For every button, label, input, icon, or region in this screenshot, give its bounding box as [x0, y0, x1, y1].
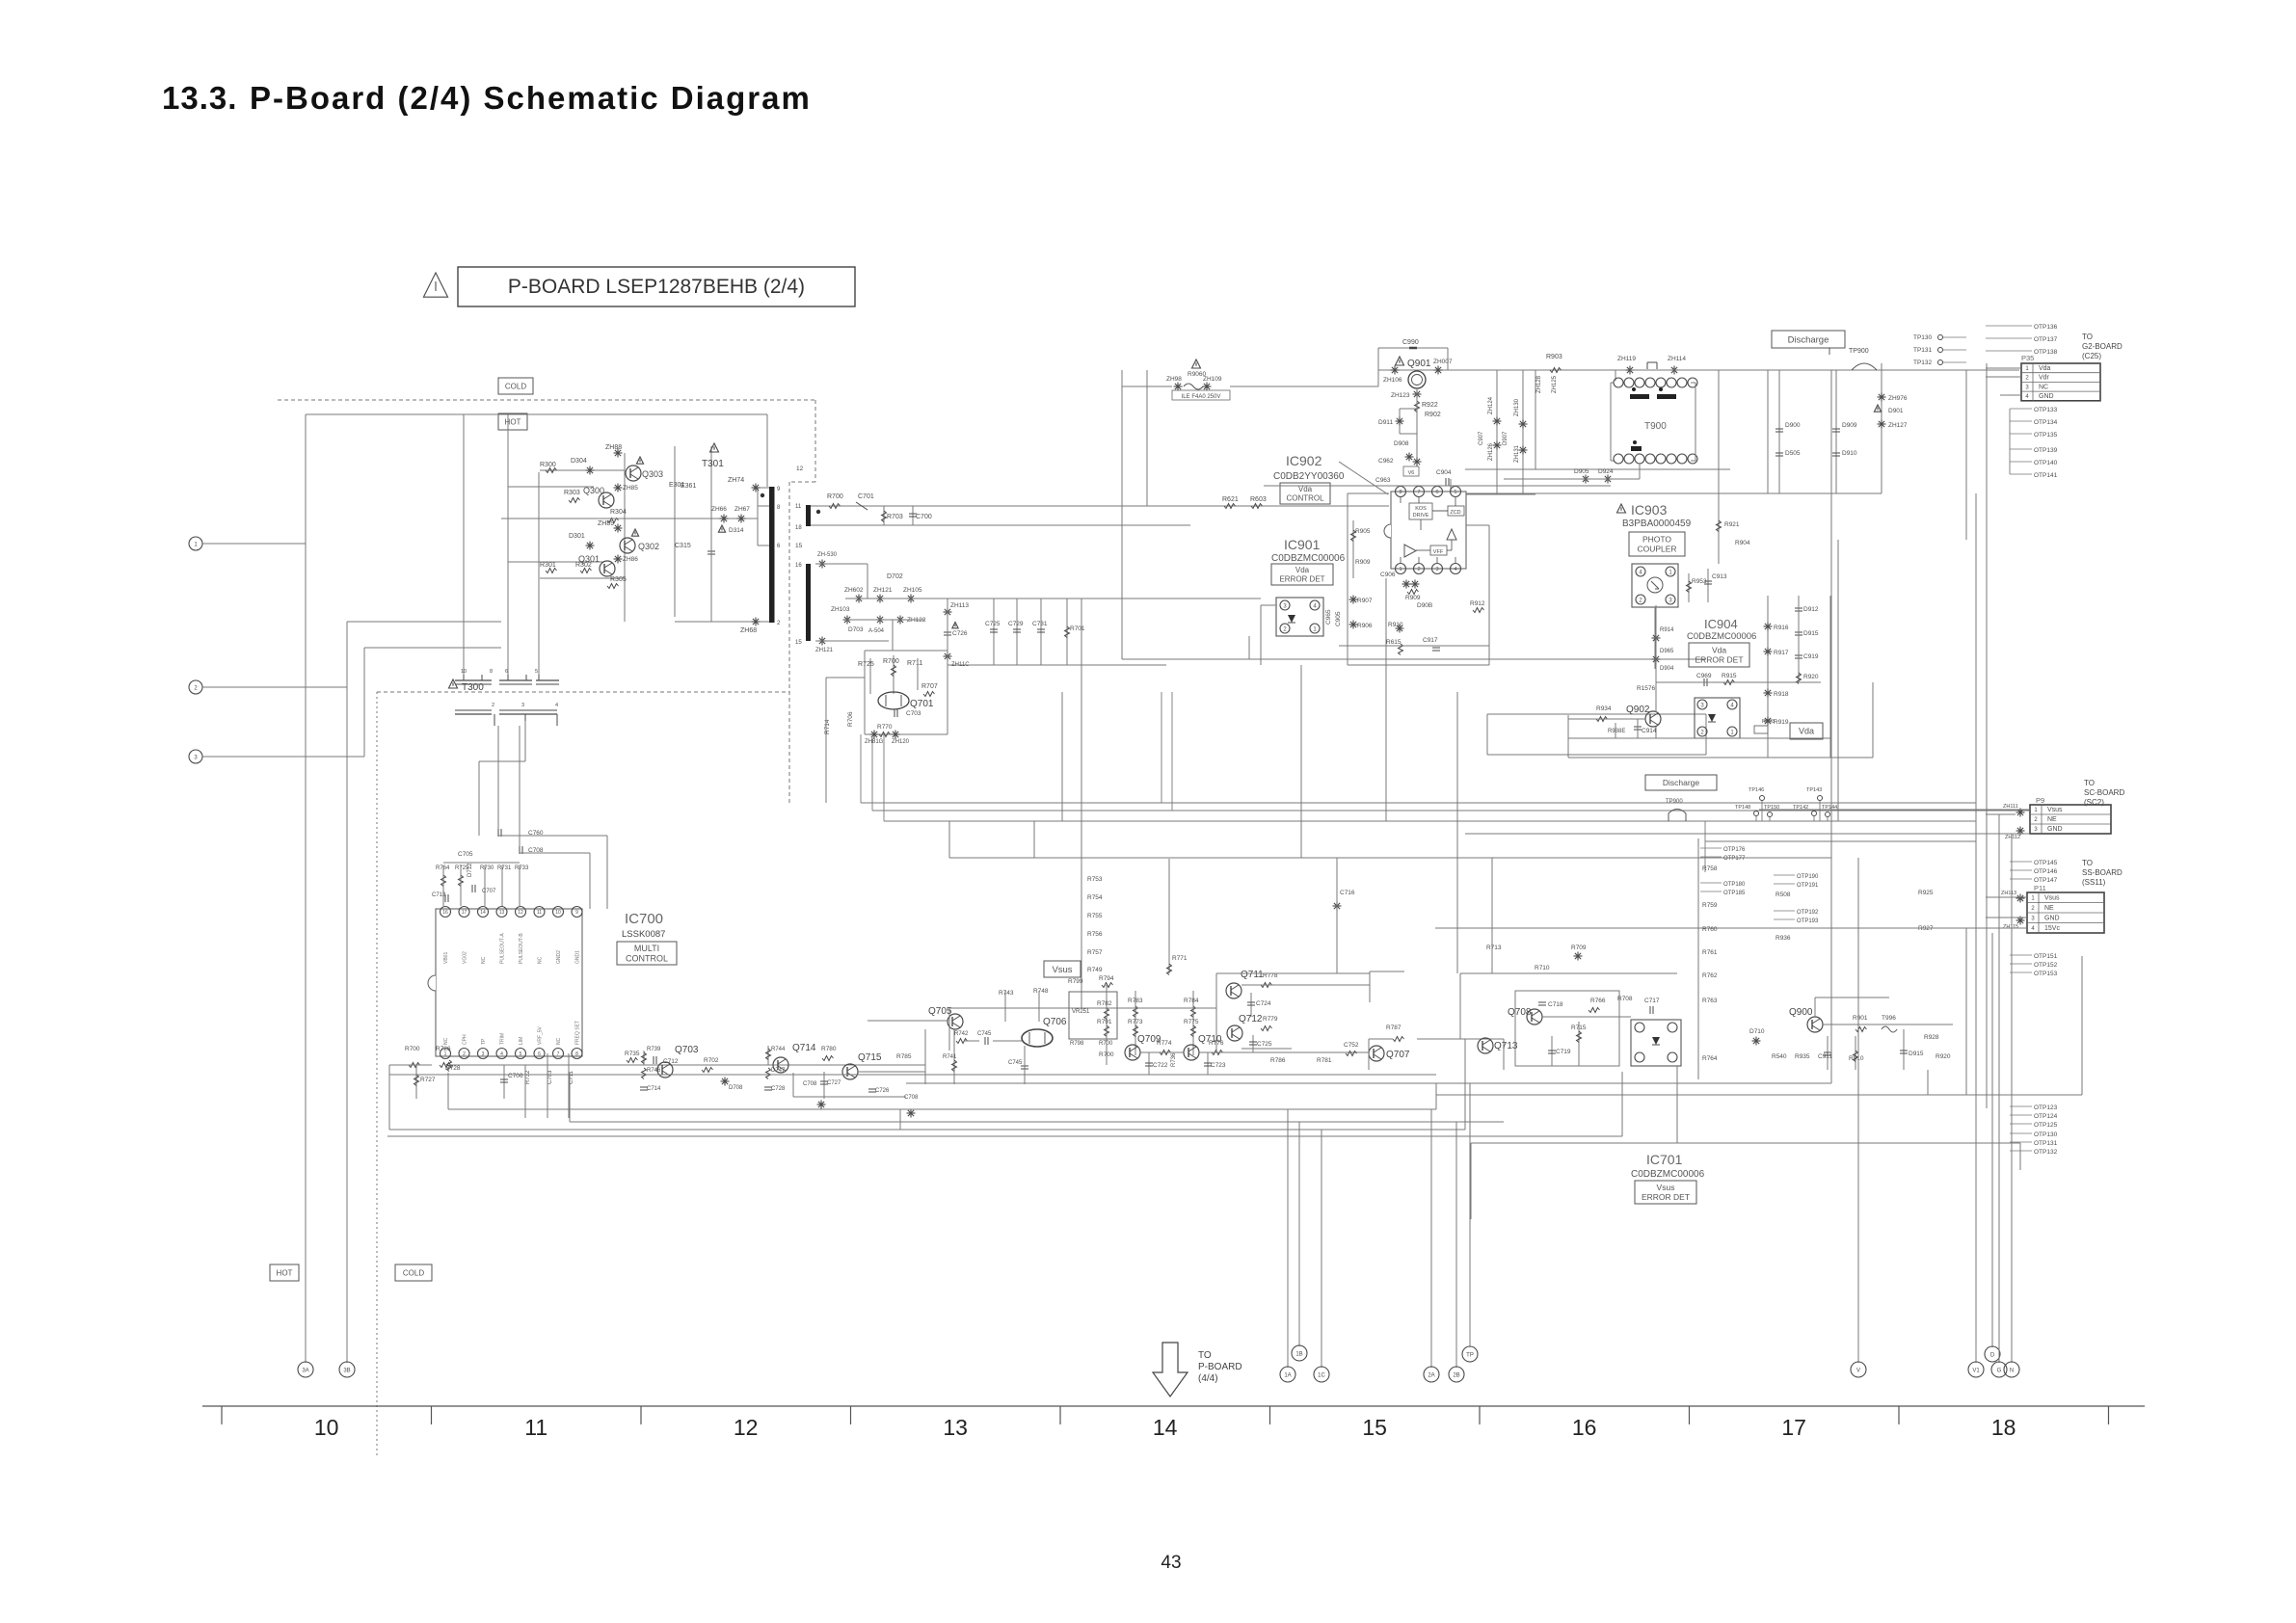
svg-text:TP900: TP900 [1666, 799, 1683, 805]
wire vertical x591 [569, 1073, 571, 1122]
svg-text:4: 4 [1313, 603, 1317, 609]
svg-text:C719: C719 [1556, 1049, 1571, 1055]
capacitor C726 [952, 623, 958, 628]
capacitor D505 [1775, 453, 1783, 456]
svg-text:R925: R925 [1918, 890, 1934, 896]
transistor Q710 [1184, 1045, 1199, 1060]
IC903 reference label [1617, 504, 1626, 513]
svg-text:R927: R927 [1918, 925, 1934, 932]
svg-text:ZH81G: ZH81G [865, 739, 884, 745]
photocoupler pins [1280, 600, 1290, 610]
svg-text:ZH121: ZH121 [815, 648, 834, 653]
svg-text:R301: R301 [540, 562, 556, 569]
svg-text:GND1: GND1 [575, 950, 581, 964]
T900 winding 1 (dotted) [1630, 394, 1649, 399]
svg-text:ZH125: ZH125 [1552, 375, 1558, 393]
jumper ZH122 [896, 616, 905, 625]
svg-text:R910: R910 [1388, 622, 1403, 628]
transistor Q707 [1369, 1046, 1384, 1061]
capacitor D910 [1832, 453, 1840, 456]
svg-text:R700: R700 [883, 658, 899, 665]
wire Q709 row rail [1140, 1051, 1184, 1053]
capacitor C725 [993, 599, 995, 665]
svg-text:C965: C965 [1325, 609, 1332, 625]
svg-text:Q714: Q714 [792, 1043, 816, 1053]
svg-text:R771: R771 [1172, 955, 1188, 962]
svg-text:5: 5 [1454, 490, 1456, 495]
svg-text:R758: R758 [1702, 865, 1718, 872]
svg-text:R916: R916 [1774, 625, 1789, 631]
jumper ZH106 [1391, 366, 1400, 375]
svg-text:4: 4 [1454, 567, 1456, 572]
svg-text:R756: R756 [1087, 931, 1103, 938]
wire vertical x1834 [1767, 596, 1769, 758]
svg-text:V6: V6 [1408, 470, 1415, 476]
svg-text:R305: R305 [610, 576, 627, 583]
svg-text:3: 3 [2031, 917, 2035, 922]
svg-text:OTP130: OTP130 [2034, 1131, 2058, 1138]
svg-text:R902: R902 [1425, 412, 1441, 418]
svg-text:11: 11 [795, 504, 802, 510]
svg-text:P-Board (2/4) Schematic Diagra: P-Board (2/4) Schematic Diagram [250, 80, 812, 116]
bottom pin 1B [1292, 1345, 1307, 1361]
wire source wire Q302 [540, 577, 625, 579]
wire drop x1371 [1321, 1130, 1322, 1368]
wire C708 link [520, 852, 590, 854]
diagonal switch line [1339, 462, 1388, 494]
bottom pin D1 [1985, 1346, 2000, 1362]
warning triangle [423, 273, 447, 297]
OTP177 wire [1700, 856, 1722, 858]
wire Q902 loop rails [1568, 737, 1830, 739]
wire bus y1179 [387, 1135, 1622, 1137]
capacitor D915b [1795, 632, 1802, 635]
OTP136 wire [1986, 325, 2032, 327]
jumper ZH126 [1493, 441, 1502, 450]
wire vertical x934 [899, 1109, 901, 1130]
ruler ticks [221, 1406, 223, 1424]
svg-text:COUPLER: COUPLER [1637, 544, 1676, 553]
svg-text:Q706: Q706 [1043, 1017, 1067, 1027]
svg-text:1: 1 [1399, 567, 1402, 572]
capacitor C729 [1016, 599, 1018, 665]
svg-text:2A: 2A [1428, 1372, 1434, 1378]
svg-text:C718: C718 [1548, 1001, 1563, 1008]
svg-text:C723: C723 [1211, 1062, 1226, 1069]
svg-text:Vda: Vda [1295, 566, 1310, 574]
svg-text:ZH113: ZH113 [950, 602, 969, 609]
wire cross rail y487 [1465, 468, 1730, 470]
fuse resistor R9060 [1192, 359, 1201, 368]
svg-text:3A: 3A [302, 1368, 308, 1373]
svg-text:15: 15 [1362, 1415, 1387, 1440]
transistor Q902 [1645, 711, 1661, 727]
svg-text:12: 12 [518, 910, 523, 916]
resistor R778 [1261, 983, 1272, 988]
svg-text:ZH127: ZH127 [1888, 422, 1908, 429]
wire vertical x985 [948, 1008, 950, 1051]
svg-text:C913: C913 [1712, 573, 1727, 580]
resistor R918 [1764, 689, 1773, 698]
svg-text:Vda: Vda [1799, 727, 1814, 736]
svg-text:E361: E361 [681, 483, 696, 490]
P35 feed wires [1986, 367, 2021, 369]
svg-text:5: 5 [535, 669, 538, 675]
svg-text:P35: P35 [2021, 354, 2034, 362]
T300 lower winding pins [494, 714, 495, 726]
svg-text:R743: R743 [999, 990, 1014, 997]
svg-text:R621: R621 [1222, 496, 1239, 503]
svg-text:TO: TO [2082, 859, 2093, 867]
P9 feed wires [1759, 809, 2030, 811]
resistor R779 [1261, 1026, 1272, 1031]
svg-text:3B: 3B [343, 1368, 350, 1373]
svg-text:R918: R918 [1774, 691, 1789, 698]
svg-text:HOT: HOT [505, 417, 521, 426]
wire C904 drop [1450, 479, 1452, 492]
svg-text:R794: R794 [1099, 975, 1114, 982]
wire T300 sec to C760 [497, 726, 499, 836]
resistor R700 on rail [829, 504, 841, 509]
svg-text:R754: R754 [1087, 894, 1103, 901]
svg-text:OTP147: OTP147 [2034, 877, 2058, 884]
svg-text:D702: D702 [887, 573, 903, 580]
svg-text:C963: C963 [1375, 477, 1391, 484]
wire Q901 stem [1416, 388, 1418, 463]
wire vertical x1512 [1456, 692, 1458, 973]
wire vertical right col 0 [1718, 370, 1720, 564]
T301 secondary core bar upper [806, 505, 811, 526]
wire OTP176 feeder vertical [1704, 821, 1706, 872]
svg-text:R753: R753 [1087, 876, 1103, 883]
svg-text:D911: D911 [1378, 419, 1393, 426]
svg-text:R938E: R938E [1608, 729, 1625, 734]
svg-text:ZH121: ZH121 [873, 587, 893, 594]
capacitor D909 [1832, 429, 1840, 432]
svg-text:R773: R773 [1128, 1019, 1143, 1025]
svg-text:R799: R799 [1068, 978, 1083, 985]
resistor R905 [1352, 520, 1354, 549]
wire diode cluster rail [845, 598, 1261, 599]
svg-text:3: 3 [1435, 567, 1438, 572]
svg-text:1A: 1A [1284, 1372, 1291, 1378]
svg-text:R766: R766 [1590, 998, 1606, 1004]
svg-text:C914: C914 [1642, 728, 1657, 734]
svg-text:TO: TO [2082, 333, 2093, 341]
svg-text:D90B: D90B [1417, 602, 1432, 609]
svg-text:R711: R711 [907, 660, 922, 667]
svg-text:Vdr: Vdr [2039, 375, 2050, 382]
svg-text:2: 2 [777, 621, 781, 626]
VFF box [1430, 545, 1447, 555]
OTP190 wire [1774, 874, 1795, 876]
Vsus function box [1044, 961, 1081, 977]
wire drop x1928 [1857, 858, 1859, 1363]
svg-text:R914: R914 [1660, 627, 1674, 633]
COLD label box (bottom) [395, 1264, 432, 1281]
svg-text:R733: R733 [515, 865, 529, 871]
wire corner x893 [860, 734, 862, 803]
jumper ZH124 [1493, 417, 1502, 426]
svg-text:R779: R779 [1263, 1016, 1278, 1023]
P35 connector table [2021, 363, 2100, 401]
T300 centre tap wire [524, 721, 526, 761]
capacitor C727 [823, 1072, 825, 1099]
svg-text:G2-BOARD: G2-BOARD [2082, 342, 2122, 351]
svg-text:OTP125: OTP125 [2034, 1122, 2058, 1129]
wire col C703 [547, 1053, 548, 1118]
wire bus y1151 [448, 1108, 1436, 1110]
svg-text:R727: R727 [420, 1077, 436, 1083]
capacitor D900 [1775, 429, 1783, 432]
IC700 top pins [441, 907, 451, 918]
svg-text:OTP133: OTP133 [2034, 407, 2058, 413]
svg-text:Vda: Vda [2039, 365, 2051, 372]
wire photocoupler frame [1261, 604, 1276, 606]
svg-text:R934: R934 [1596, 705, 1612, 712]
svg-text:TP131: TP131 [1913, 347, 1933, 354]
wire rail y708 [1656, 681, 1821, 683]
svg-text:Q715: Q715 [858, 1052, 882, 1063]
svg-text:R764: R764 [1702, 1055, 1718, 1062]
wire pin1 to bus [202, 543, 306, 545]
svg-text:ZH120: ZH120 [892, 739, 910, 745]
svg-text:R798: R798 [1070, 1041, 1084, 1047]
svg-text:P11: P11 [2034, 884, 2046, 892]
svg-text:R903: R903 [1546, 354, 1562, 360]
svg-text:NC: NC [481, 956, 487, 964]
wire cluster drop [892, 620, 894, 651]
svg-text:C745: C745 [977, 1031, 992, 1037]
svg-text:12: 12 [796, 466, 804, 472]
svg-text:1: 1 [2025, 366, 2029, 372]
svg-text:CONTROL: CONTROL [1286, 494, 1324, 503]
svg-text:4: 4 [1639, 570, 1642, 575]
wire C760 link [498, 835, 607, 837]
svg-text:R936: R936 [1775, 935, 1791, 942]
wire vertical ZH column 1 [1496, 370, 1498, 494]
OTP191 wire [1774, 883, 1795, 885]
svg-text:OTP176: OTP176 [1723, 847, 1746, 853]
svg-text:R762: R762 [1702, 972, 1718, 979]
svg-text:D712: D712 [467, 863, 473, 877]
svg-text:17: 17 [462, 910, 467, 916]
svg-text:R615: R615 [1386, 639, 1402, 646]
jumper ZH131 [1519, 446, 1528, 455]
svg-text:C707: C707 [482, 889, 496, 894]
transistor Q701 (dual) [878, 692, 909, 709]
svg-text:R917: R917 [1774, 650, 1789, 656]
svg-text:R744: R744 [771, 1047, 786, 1052]
svg-text:2: 2 [2034, 817, 2038, 823]
wire vertical right col 1b [1778, 370, 1780, 493]
svg-text:D924: D924 [1598, 468, 1614, 475]
jumper ZH109 [1203, 383, 1212, 391]
wire drain wire Q303 [540, 469, 625, 471]
svg-text:D907: D907 [1503, 431, 1508, 445]
svg-text:D909: D909 [1842, 422, 1857, 429]
capacitor C706 [503, 1065, 505, 1099]
svg-text:R303: R303 [564, 490, 580, 496]
transistor Q705 [948, 1014, 963, 1029]
svg-text:2B: 2B [1453, 1372, 1459, 1378]
svg-text:C0DB2YY00360: C0DB2YY00360 [1273, 471, 1345, 482]
svg-text:TO: TO [1198, 1350, 1212, 1361]
wire primary block vertical 1 [463, 414, 465, 675]
T900 winding 2 (dotted) [1657, 394, 1676, 399]
wire rail y497 [1504, 478, 1640, 480]
svg-text:R735: R735 [625, 1051, 640, 1057]
svg-text:16: 16 [442, 910, 448, 916]
svg-text:R770: R770 [877, 724, 893, 731]
svg-text:2: 2 [1283, 626, 1287, 632]
wire primary block vertical 3 [538, 472, 540, 675]
svg-text:R749: R749 [1087, 967, 1103, 973]
svg-text:IC904: IC904 [1704, 617, 1738, 631]
svg-text:R742: R742 [954, 1031, 969, 1037]
diode pair below pin1 [1402, 580, 1411, 589]
svg-text:13.3.: 13.3. [162, 80, 237, 116]
svg-text:Q703: Q703 [675, 1045, 699, 1055]
svg-text:17: 17 [1781, 1415, 1806, 1440]
svg-text:1B: 1B [1295, 1351, 1302, 1357]
capacitor C720 [764, 1087, 772, 1090]
wire C726 column [947, 599, 948, 665]
svg-text:COLD: COLD [505, 382, 526, 390]
IC902 pin 2 [1414, 564, 1425, 574]
transistor Q301 [600, 561, 615, 576]
capacitor C724 [1250, 993, 1252, 1017]
svg-text:R508: R508 [1775, 891, 1791, 898]
pin 1 (left input) [189, 537, 202, 550]
svg-text:R784: R784 [1184, 998, 1199, 1004]
svg-text:43: 43 [1161, 1553, 1181, 1573]
svg-text:Q707: Q707 [1386, 1050, 1410, 1060]
resistor R710 bus [1460, 972, 1677, 974]
svg-text:C700: C700 [916, 514, 932, 520]
svg-text:DRIVE: DRIVE [1413, 513, 1429, 519]
wire OTP feeder vertical [2009, 409, 2011, 474]
resistor R907 [1349, 596, 1358, 604]
svg-text:8: 8 [490, 669, 493, 675]
capacitor C990 loop [1378, 347, 1448, 349]
resistor R776 [1212, 1051, 1223, 1055]
resistor R739 [643, 1051, 645, 1065]
wire vertical ZH column 2 [1522, 370, 1524, 494]
wire drop x1511 [1455, 1122, 1457, 1368]
svg-text:R906: R906 [1357, 623, 1373, 629]
IC903 pins [1636, 567, 1645, 576]
svg-text:Q713: Q713 [1494, 1041, 1518, 1051]
bottom pin D2 [1991, 1362, 2007, 1377]
transformer T301 warning [710, 443, 719, 452]
jumper ZH130 [1519, 420, 1528, 429]
wire rail y841 [872, 810, 2030, 811]
resistor R912 [1473, 608, 1484, 613]
svg-text:R928: R928 [1924, 1034, 1939, 1041]
wire vertical x2040 drop [1965, 928, 1967, 1095]
capacitor C919 [1795, 655, 1802, 658]
OTP151 wire [2010, 954, 2032, 956]
bottom pin 2B [1449, 1367, 1464, 1382]
svg-text:8: 8 [1399, 490, 1402, 495]
svg-text:OTP138: OTP138 [2034, 349, 2058, 356]
svg-text:2: 2 [1417, 567, 1420, 572]
svg-text:2: 2 [2031, 906, 2035, 912]
wire Q701 box [865, 650, 948, 652]
svg-text:ZH602: ZH602 [844, 587, 864, 594]
IC904 pc LED [1708, 714, 1716, 722]
resistor R903 [1550, 368, 1562, 373]
hot/cold dashed boundary right vertical [814, 400, 816, 482]
transistor Q713 [1478, 1038, 1493, 1053]
svg-text:R912: R912 [1470, 600, 1485, 607]
OTP139 wire [2010, 448, 2032, 450]
wire Q70x upper rail [924, 1029, 926, 1084]
resistor R703 shunt [883, 506, 885, 525]
svg-text:ZH111: ZH111 [2003, 804, 2018, 810]
wire rail from fuse to Q901 [1230, 386, 1378, 387]
svg-text:OTP139: OTP139 [2034, 447, 2058, 454]
svg-text:14: 14 [1153, 1415, 1178, 1440]
svg-text:TP143: TP143 [1806, 787, 1822, 793]
IC902 pin 1 [1396, 564, 1406, 574]
svg-text:VFF: VFF [1433, 549, 1444, 555]
wire vertical x2061 [1986, 363, 1988, 1108]
capacitor C722 [1148, 1052, 1150, 1075]
wire cross rail y513 left [1466, 493, 1535, 495]
svg-text:OTP191: OTP191 [1797, 883, 1819, 889]
svg-text:P-BOARD: P-BOARD [1198, 1362, 1242, 1372]
svg-text:Q708: Q708 [1508, 1007, 1532, 1018]
svg-text:14: 14 [480, 910, 486, 916]
T900 bottom winding [1631, 446, 1642, 451]
jumper ZH11C [944, 652, 952, 661]
svg-text:ILE F4A0 250V: ILE F4A0 250V [1182, 394, 1221, 400]
jumper ZH86 [614, 555, 623, 564]
svg-text:C724: C724 [1256, 1000, 1271, 1007]
wire rail drop left [388, 1065, 390, 1130]
svg-text:D314: D314 [729, 527, 744, 534]
wire rail y833 [861, 802, 1976, 804]
svg-text:C905: C905 [1335, 611, 1342, 626]
wire IC902 out right [1466, 524, 1489, 526]
wire vertical right col 3 [1881, 363, 1882, 493]
wire vertical x1907 low [1837, 540, 1839, 821]
svg-text:(C25): (C25) [2082, 352, 2101, 360]
svg-text:MULTI: MULTI [634, 944, 659, 953]
svg-text:15: 15 [795, 640, 802, 646]
svg-text:N: N [2010, 1368, 2014, 1373]
Discharge box (top) [1772, 331, 1845, 348]
svg-text:2: 2 [2025, 376, 2029, 382]
svg-text:R746: R746 [647, 1068, 661, 1074]
wire Q30x collector bus [624, 453, 626, 622]
resistor R906 [1349, 621, 1358, 629]
svg-text:D910: D910 [1842, 450, 1857, 457]
svg-text:LIM: LIM [519, 1037, 524, 1045]
jumper ZH66 [720, 515, 729, 523]
svg-text:R713: R713 [1486, 945, 1502, 951]
svg-text:VG02: VG02 [463, 951, 468, 964]
wire drop x1525 [1469, 1083, 1471, 1347]
resistor R921 [1717, 520, 1722, 532]
svg-text:ZH68: ZH68 [740, 627, 757, 634]
P11 connector table [2027, 892, 2104, 933]
TP900 coil [1852, 363, 1877, 370]
svg-text:KOS: KOS [1415, 506, 1427, 512]
svg-text:R763: R763 [1702, 998, 1718, 1004]
